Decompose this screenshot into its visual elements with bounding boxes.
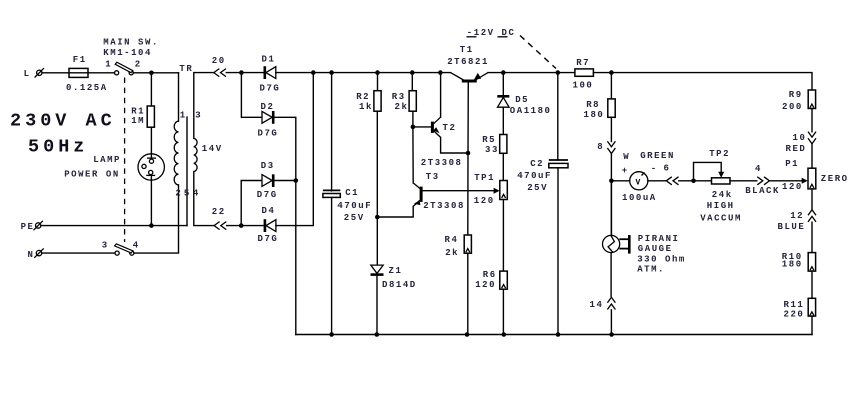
resistor R9 200 (782, 90, 816, 112)
lamp POWER ON (64, 154, 164, 180)
svg-text:R11: R11 (784, 300, 805, 310)
svg-text:T3: T3 (426, 172, 440, 182)
wire 22 to D4 (227, 225, 265, 227)
wire T2 collector to bus (440, 73, 442, 118)
wire R3 to T2 base node (412, 111, 414, 127)
svg-text:2k: 2k (445, 248, 459, 258)
svg-text:HIGH: HIGH (707, 201, 735, 211)
switch contact 4 (130, 251, 134, 255)
junction TP2 wiper node (691, 179, 696, 184)
TP2 wiper arrowhead (718, 172, 724, 178)
wire R8 top lead (610, 73, 612, 99)
wire D3 to junction (273, 180, 296, 182)
svg-text:14: 14 (590, 300, 604, 310)
pirani gauge PIRANI GAUGE 330 Ohm ATM. (603, 234, 686, 274)
wire R2 top lead (377, 73, 379, 91)
wire base to T2 (413, 126, 431, 128)
wire T2 emitter to T1 base node (441, 137, 468, 153)
svg-text:470uF: 470uF (337, 201, 372, 211)
svg-text:R2: R2 (356, 92, 370, 102)
switch contact 3 (115, 251, 119, 255)
svg-text:200: 200 (782, 102, 803, 112)
svg-text:VACCUM: VACCUM (700, 213, 742, 223)
connector 6 chevrons left (664, 163, 679, 184)
svg-text:D5: D5 (515, 95, 529, 105)
svg-text:TP2: TP2 (709, 149, 730, 159)
wire voltmeter to connector 6 (648, 180, 666, 182)
resistor R6 120 (475, 270, 507, 290)
svg-text:22: 22 (212, 207, 226, 217)
svg-text:8: 8 (597, 142, 604, 152)
junction D5 on bus (501, 70, 506, 75)
svg-text:C2: C2 (530, 159, 544, 169)
svg-text:20: 20 (212, 56, 226, 66)
svg-text:GAUGE: GAUGE (638, 244, 673, 254)
svg-text:C1: C1 (345, 188, 359, 198)
svg-text:12: 12 (790, 211, 804, 221)
svg-text:W: W (623, 152, 630, 162)
svg-text:R1: R1 (131, 106, 145, 116)
connector 14 chevrons up (590, 297, 616, 310)
label -12V DC (467, 28, 516, 38)
wire P1 to connector 12 (811, 189, 813, 209)
node L terminal (24, 68, 44, 79)
connector 12 chevrons up (790, 210, 816, 222)
potentiometer P1 120 ZERO (782, 159, 849, 192)
switch blade (115, 62, 133, 72)
svg-text:470uF: 470uF (517, 171, 552, 181)
wire T1 base to node (467, 81, 469, 153)
capacitor C1 470uF 25V (323, 188, 372, 223)
svg-text:D7G: D7G (258, 129, 279, 139)
node PE terminal (21, 221, 43, 232)
wire R3 top lead (411, 73, 413, 91)
switch MAIN SW. KM1-104 (103, 37, 159, 69)
wire TP1 to R6 (502, 200, 504, 272)
connector 10 chevrons down (793, 132, 817, 144)
wire C1 bottom lead (331, 197, 333, 334)
svg-text:GREEN: GREEN (640, 151, 675, 161)
svg-text:T1: T1 (460, 45, 474, 55)
junction T3 emitter node (375, 215, 380, 220)
svg-text:5: 5 (184, 188, 191, 198)
node N terminal (28, 248, 44, 259)
junction T1 base node (466, 151, 471, 156)
svg-text:3: 3 (195, 110, 202, 120)
svg-text:ZERO: ZERO (821, 174, 849, 184)
svg-text:POWER ON: POWER ON (64, 170, 120, 180)
svg-text:T2: T2 (443, 123, 457, 133)
wire 4 to P1 wiper (770, 180, 804, 182)
svg-text:2T6821: 2T6821 (447, 57, 489, 67)
svg-text:25V: 25V (527, 183, 548, 193)
wire R4 to ground (467, 253, 469, 334)
connector 20 chevrons (212, 56, 226, 76)
svg-text:PIRANI: PIRANI (638, 234, 680, 244)
resistor R4 2k (445, 235, 472, 258)
svg-text:ATM.: ATM. (637, 264, 665, 274)
svg-text:1: 1 (180, 110, 187, 120)
svg-text:F1: F1 (73, 55, 87, 65)
connector 8 chevrons down (597, 141, 615, 153)
junction 14 ground (609, 332, 614, 337)
svg-text:TR: TR (179, 64, 193, 74)
junction Z1 ground (375, 332, 380, 337)
transformer center tap line (186, 117, 188, 226)
junction D2-D3 cathodes (294, 178, 299, 183)
wire R11 to ground (811, 316, 813, 334)
TP1 wiper arrowhead (494, 188, 500, 194)
junction C2 ground (556, 332, 561, 337)
ground bus bottom (296, 334, 812, 336)
diode D5 OA1180 (497, 95, 551, 116)
wire bus to primary top (178, 73, 180, 121)
svg-text:230V AC: 230V AC (10, 111, 116, 132)
wire T3 emitter down-left (377, 206, 413, 217)
switch contact 2 (129, 71, 133, 75)
wire PE to center tap (41, 225, 187, 227)
wire secondary top lead (194, 73, 214, 139)
resistor R5 33 (482, 135, 507, 156)
svg-text:14V: 14V (202, 144, 223, 154)
svg-text:180: 180 (584, 110, 605, 120)
zener Z1 D814D (371, 265, 417, 290)
resistor R8 180 (584, 99, 616, 120)
wire C2 bottom lead (557, 168, 559, 335)
transformer TR primary winding (174, 64, 193, 185)
resistor R7 100 (573, 58, 594, 91)
svg-text:D814D: D814D (382, 280, 417, 290)
svg-text:D7G: D7G (258, 234, 279, 244)
resistor R1 1M (131, 106, 154, 127)
svg-text:R5: R5 (482, 135, 496, 145)
svg-text:R7: R7 (576, 58, 590, 68)
capacitor C2 470uF 25V (517, 159, 568, 193)
svg-text:R4: R4 (445, 235, 459, 245)
svg-text:100: 100 (573, 81, 594, 91)
junction D3-D4 (239, 223, 244, 228)
wire C1 top lead (331, 73, 333, 191)
junction C1 ground (329, 332, 334, 337)
wire fuse to switch (88, 72, 115, 74)
potentiometer TP1 120 (474, 173, 508, 206)
transistor T2 2T3308 (421, 117, 463, 168)
wire N to switch (42, 252, 115, 254)
svg-text:TP1: TP1 (474, 173, 495, 183)
svg-text:Z1: Z1 (389, 266, 403, 276)
wire switch to node A (133, 72, 178, 74)
svg-text:33: 33 (485, 145, 499, 155)
svg-text:P1: P1 (785, 159, 799, 169)
switch contact 1 (115, 71, 119, 75)
junction R4 ground (465, 332, 470, 337)
connector 4 chevrons right (755, 164, 770, 185)
svg-text:D1: D1 (262, 54, 276, 64)
transformer secondary winding (194, 138, 197, 171)
resistor R11 220 (784, 298, 816, 319)
transistor T1 2T6821 (447, 45, 489, 81)
wire D2 branch (241, 73, 262, 118)
junction R3 on bus (410, 70, 415, 75)
svg-text:1: 1 (105, 59, 112, 69)
wire D2 cathode down (273, 117, 296, 334)
wire meter node to voltmeter (611, 180, 629, 182)
svg-text:KM1-104: KM1-104 (103, 48, 152, 58)
junction R2 on bus (375, 70, 380, 75)
wire bus T1 to R7 (488, 72, 575, 74)
wire 12 to R10 (811, 222, 813, 252)
wire lamp to PE line (150, 175, 152, 225)
svg-text:RED: RED (786, 144, 807, 154)
diode D4 D7G (258, 206, 279, 244)
svg-text:6: 6 (664, 163, 671, 173)
transistor T3 2T3308 (413, 172, 465, 211)
svg-text:+: + (622, 166, 629, 176)
svg-text:4: 4 (133, 240, 140, 250)
resistor R3 2k (392, 91, 417, 113)
junction R8 on bus (609, 70, 614, 75)
wire Z1 to ground (376, 275, 378, 335)
svg-text:2: 2 (135, 59, 142, 69)
svg-text:D3: D3 (261, 161, 275, 171)
svg-text:24k: 24k (712, 190, 733, 200)
connector 22 chevrons (212, 207, 227, 229)
wire D5 top lead (502, 73, 504, 97)
wire D5 to R5 (502, 107, 504, 134)
wire C2 top lead (557, 73, 559, 160)
svg-text:2k: 2k (395, 102, 409, 112)
wire gauge to connector 14 (610, 253, 612, 297)
wire R8 to connector 8 (610, 117, 612, 141)
svg-text:D4: D4 (262, 206, 276, 216)
svg-text:D2: D2 (261, 102, 275, 112)
svg-text:2: 2 (175, 188, 182, 198)
wire 8 to meter node (610, 154, 612, 236)
fuse F1 0.125A (66, 55, 108, 93)
svg-text:R6: R6 (483, 270, 497, 280)
svg-text:LAMP: LAMP (93, 155, 121, 165)
wire 20 to D1 (226, 72, 264, 74)
dashed pointer -12V DC (520, 36, 556, 69)
svg-text:D7G: D7G (260, 84, 281, 94)
wire secondary bottom lead (194, 172, 214, 226)
voltmeter W 100uA (622, 152, 658, 203)
wire R2 to Z1 (376, 111, 378, 265)
svg-text:4: 4 (755, 164, 762, 174)
svg-text:10: 10 (793, 133, 807, 143)
wire meter node to gauge (610, 181, 612, 236)
svg-text:180: 180 (782, 260, 803, 270)
wire top bus left span (276, 72, 451, 74)
svg-text:50Hz: 50Hz (28, 137, 88, 158)
resistor R2 1k (356, 91, 381, 113)
svg-text:BLACK: BLACK (745, 186, 780, 196)
svg-text:R3: R3 (392, 92, 406, 102)
wire 10 to P1 (811, 144, 813, 168)
dashed separator line (124, 78, 126, 243)
svg-text:2T3308: 2T3308 (421, 158, 463, 168)
svg-text:25V: 25V (344, 213, 365, 223)
junction D1-D2 (239, 70, 244, 75)
junction riser on bus (311, 70, 316, 75)
wire R5 to TP1 (502, 153, 504, 180)
wire 14 to ground (610, 310, 612, 335)
svg-text:R8: R8 (586, 100, 600, 110)
wire TP2 wiper loop (694, 162, 722, 180)
junction meter node (609, 179, 614, 184)
wire TP2 to connector 4 (730, 180, 757, 182)
wire R1 to lamp (150, 127, 152, 158)
svg-text:120: 120 (782, 182, 803, 192)
svg-text:2T3308: 2T3308 (423, 201, 465, 211)
wire node A down to R1 (150, 73, 152, 106)
switch blade N (115, 244, 133, 253)
diode D2 D7G (258, 102, 279, 139)
wire R9 to connector 10 (811, 109, 813, 132)
wire T1 base node to R4 (467, 153, 469, 235)
svg-text:R9: R9 (789, 90, 803, 100)
node A junction (149, 71, 154, 76)
svg-text:120: 120 (474, 196, 495, 206)
diode D3 D7G (257, 161, 278, 200)
svg-text:N: N (28, 250, 35, 260)
svg-text:MAIN SW.: MAIN SW. (103, 37, 159, 47)
junction C2 on bus (556, 70, 561, 75)
junction T2 collector bus (438, 70, 443, 75)
junction T2 base node (411, 125, 416, 130)
wire 6 to TP2 (679, 180, 712, 182)
svg-text:330 Ohm: 330 Ohm (637, 254, 686, 264)
potentiometer TP2 24k HIGH VACCUM (700, 149, 742, 223)
wire R10 to R11 (811, 271, 813, 298)
svg-text:PE: PE (21, 222, 35, 232)
wire D3 branch (241, 181, 262, 226)
svg-text:OA1180: OA1180 (510, 106, 552, 116)
wire T3 collector riser (412, 127, 414, 183)
junction lamp on PE wire (149, 223, 154, 228)
junction C1 on bus (329, 70, 334, 75)
svg-text:220: 220 (784, 309, 805, 319)
svg-text:3: 3 (102, 240, 109, 250)
diode D1 D7G (260, 54, 281, 93)
svg-text:-: - (651, 164, 658, 174)
wire R7 to right rail (593, 73, 812, 90)
svg-text:100uA: 100uA (622, 193, 657, 203)
svg-text:D7G: D7G (257, 190, 278, 200)
wire D4 to riser (276, 73, 313, 226)
svg-text:1M: 1M (131, 116, 145, 126)
wire T3 base to TP1 wiper (423, 190, 498, 192)
wire L to fuse (42, 72, 69, 74)
junction R6 ground (502, 332, 507, 337)
svg-text:V: V (636, 178, 641, 187)
svg-text:1k: 1k (359, 102, 373, 112)
svg-text:L: L (24, 69, 31, 79)
svg-text:120: 120 (475, 280, 496, 290)
svg-text:BLUE: BLUE (778, 222, 806, 232)
svg-text:0.125A: 0.125A (66, 83, 108, 93)
wire switch4 to transformer primary (134, 185, 179, 253)
wire R6 to ground (502, 289, 504, 334)
resistor R10 180 (782, 252, 816, 271)
P1 wiper arrowhead (802, 178, 808, 184)
